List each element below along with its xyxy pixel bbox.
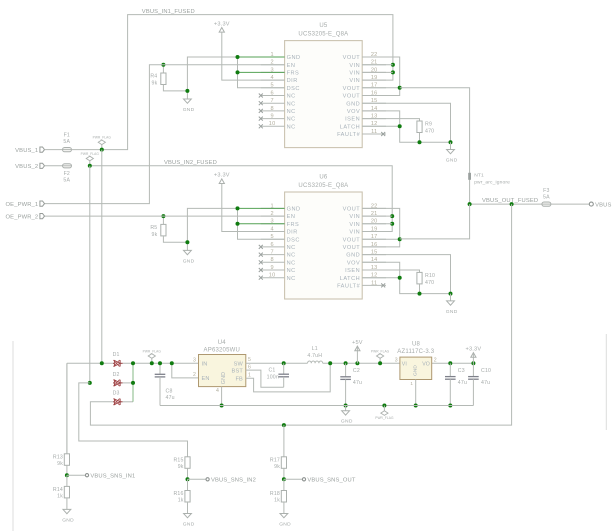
svg-text:5: 5 [248,357,251,363]
svg-text:PWR_FLAG: PWR_FLAG [93,136,112,140]
svg-text:VO: VO [422,362,430,368]
svg-text:1k: 1k [178,498,184,504]
svg-text:R9: R9 [425,122,432,128]
svg-text:VOV: VOV [347,109,360,115]
svg-text:R18: R18 [270,491,280,497]
svg-text:GND: GND [287,207,301,213]
svg-text:GND: GND [287,55,301,61]
svg-text:4.7uH: 4.7uH [307,353,322,359]
svg-text:GND: GND [279,521,291,527]
svg-text:GND: GND [183,107,195,113]
svg-text:FAULT#: FAULT# [337,284,360,290]
svg-text:GND: GND [346,253,360,259]
svg-text:GND: GND [446,157,458,163]
svg-text:R10: R10 [425,273,435,279]
svg-text:GND: GND [413,365,419,376]
svg-text:FRS: FRS [287,222,300,228]
svg-text:LATCH: LATCH [340,124,360,130]
svg-text:NC: NC [287,101,296,107]
svg-text:6: 6 [270,90,273,96]
svg-text:NC: NC [287,94,296,100]
svg-text:DSC: DSC [287,237,300,243]
svg-text:R5: R5 [150,225,157,231]
svg-text:100n: 100n [267,374,279,380]
svg-text:GND: GND [221,372,227,385]
svg-text:R15: R15 [173,457,183,463]
svg-text:R13: R13 [53,454,63,460]
svg-text:+5V: +5V [352,340,363,346]
svg-text:NC: NC [287,245,296,251]
svg-text:9: 9 [270,114,273,120]
svg-text:1: 1 [248,373,251,379]
svg-text:D3: D3 [113,391,120,397]
svg-text:SW: SW [234,362,244,368]
svg-text:R4: R4 [150,74,157,80]
svg-text:F3: F3 [543,188,549,194]
svg-text:5A: 5A [543,194,550,200]
svg-text:8: 8 [270,106,273,112]
svg-text:9k: 9k [178,464,184,470]
svg-text:FRS: FRS [287,71,300,77]
svg-text:LATCH: LATCH [340,276,360,282]
svg-text:VBUS_IN1_FUSED: VBUS_IN1_FUSED [142,9,195,15]
svg-text:GND: GND [446,309,458,315]
svg-text:C3: C3 [458,368,465,374]
svg-text:+3.3V: +3.3V [214,21,230,27]
svg-text:pwr_arc_ignore: pwr_arc_ignore [474,179,510,185]
svg-text:VOUT: VOUT [343,86,361,92]
svg-text:U6: U6 [319,175,328,181]
svg-text:OE_PWR_2: OE_PWR_2 [6,214,39,220]
svg-text:9k: 9k [152,232,158,238]
svg-text:VOUT: VOUT [343,245,361,251]
svg-text:ISEN: ISEN [345,117,360,123]
svg-text:7: 7 [270,250,273,256]
svg-text:NC: NC [287,124,296,130]
svg-text:VI: VI [402,362,407,368]
svg-text:PWR_FLAG: PWR_FLAG [375,416,394,420]
svg-text:PWR_FLAG: PWR_FLAG [81,152,100,156]
svg-text:GND: GND [62,517,74,523]
svg-text:AZ1117C-3.3: AZ1117C-3.3 [397,349,434,355]
svg-text:47u: 47u [458,380,467,386]
svg-text:U8: U8 [412,341,421,347]
svg-text:VBUS: VBUS [595,202,611,208]
svg-text:C10: C10 [481,368,491,374]
svg-text:NC: NC [287,260,296,266]
svg-text:R14: R14 [53,487,63,493]
svg-text:F1: F1 [64,133,70,139]
svg-text:5A: 5A [63,177,70,183]
svg-text:6: 6 [270,242,273,248]
svg-text:11: 11 [371,129,377,135]
svg-text:+3.3V: +3.3V [214,173,230,179]
svg-text:FB: FB [235,376,243,382]
svg-text:VOUT: VOUT [343,237,361,243]
svg-text:NC: NC [287,268,296,274]
svg-text:GND: GND [183,521,195,527]
svg-text:47u: 47u [481,380,490,386]
svg-text:+3.3V: +3.3V [466,347,482,353]
svg-text:VIN: VIN [349,78,360,84]
svg-text:D2: D2 [113,372,120,378]
svg-text:U4: U4 [218,340,227,346]
svg-text:3: 3 [395,357,398,363]
svg-text:R17: R17 [270,457,280,463]
svg-text:10: 10 [269,273,276,279]
svg-text:9: 9 [270,265,273,271]
svg-text:9k: 9k [152,80,158,86]
svg-text:VOUT: VOUT [343,207,361,213]
svg-text:2: 2 [434,357,437,363]
svg-text:D1: D1 [113,352,120,358]
svg-text:VOUT: VOUT [343,55,361,61]
svg-text:ISEN: ISEN [345,268,360,274]
svg-text:9k: 9k [274,464,280,470]
svg-text:F2: F2 [64,171,70,177]
svg-text:47u: 47u [353,380,362,386]
svg-text:470: 470 [425,128,434,134]
svg-text:5A: 5A [63,139,70,145]
svg-text:AP63205WU: AP63205WU [204,347,241,353]
svg-text:R16: R16 [173,491,183,497]
svg-text:BST: BST [232,368,244,374]
svg-text:UCS3205-E_Q8A: UCS3205-E_Q8A [298,31,348,37]
svg-text:1k: 1k [57,494,63,500]
svg-text:10: 10 [269,121,276,127]
svg-text:VIN: VIN [349,214,360,220]
svg-text:1: 1 [410,381,413,386]
svg-text:1k: 1k [274,498,280,504]
svg-text:PWR_FLAG: PWR_FLAG [143,349,162,353]
svg-text:VBUS_1: VBUS_1 [15,148,38,154]
svg-text:NC: NC [287,109,296,115]
svg-text:DIR: DIR [287,78,298,84]
svg-text:2: 2 [193,372,196,378]
svg-text:C8: C8 [166,388,173,394]
svg-text:U5: U5 [319,23,328,29]
svg-text:6: 6 [248,364,251,370]
svg-text:GND: GND [183,258,195,264]
svg-text:3: 3 [193,358,196,364]
svg-text:PWR_FLAG: PWR_FLAG [371,349,390,353]
svg-text:NC: NC [287,253,296,259]
svg-text:7: 7 [270,98,273,104]
svg-text:8: 8 [270,257,273,263]
svg-text:DIR: DIR [287,230,298,236]
svg-text:VIN: VIN [349,63,360,69]
svg-text:FAULT#: FAULT# [337,132,360,138]
svg-text:470: 470 [425,280,434,286]
svg-text:L1: L1 [312,346,318,352]
svg-text:VBUS_SNS_OUT: VBUS_SNS_OUT [307,478,355,484]
svg-text:DSC: DSC [287,86,300,92]
svg-text:VBUS_SNS_IN2: VBUS_SNS_IN2 [211,478,256,484]
svg-text:VIN: VIN [349,230,360,236]
svg-text:VIN: VIN [349,222,360,228]
svg-text:VIN: VIN [349,71,360,77]
svg-text:VBUS_2: VBUS_2 [15,164,38,170]
svg-text:EN: EN [287,63,296,69]
svg-text:47u: 47u [166,395,175,401]
svg-text:EN: EN [287,214,296,220]
svg-text:IN: IN [202,362,208,368]
svg-text:VBUS_IN2_FUSED: VBUS_IN2_FUSED [164,160,217,166]
svg-text:9k: 9k [57,461,63,467]
svg-text:NT1: NT1 [474,172,484,178]
svg-text:C1: C1 [268,368,275,374]
svg-text:C2: C2 [353,368,360,374]
svg-text:EN: EN [202,376,210,382]
svg-text:OE_PWR_1: OE_PWR_1 [6,202,39,208]
svg-text:VBUS_SNS_IN1: VBUS_SNS_IN1 [90,473,135,479]
svg-text:11: 11 [371,280,377,286]
svg-text:NC: NC [287,276,296,282]
svg-text:GND: GND [341,419,353,425]
svg-text:VOV: VOV [347,260,360,266]
svg-text:4: 4 [216,388,219,394]
svg-text:GND: GND [346,101,360,107]
svg-text:NC: NC [287,117,296,123]
svg-text:UCS3205-E_Q8A: UCS3205-E_Q8A [298,183,348,189]
svg-text:VOUT: VOUT [343,94,361,100]
